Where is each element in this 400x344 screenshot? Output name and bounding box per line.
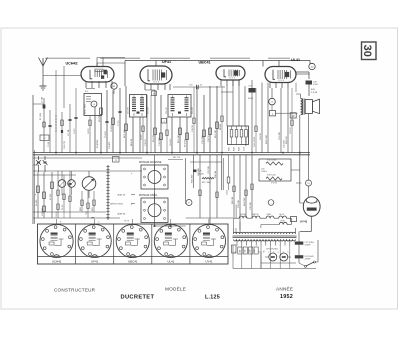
- svg-text:470MF: 470MF: [305, 245, 312, 247]
- svg-text:C9 25: C9 25: [141, 134, 143, 140]
- svg-text:MOTEUR OSCIL.: MOTEUR OSCIL.: [139, 194, 158, 197]
- svg-text:S25 16049: S25 16049: [305, 256, 314, 258]
- svg-text:245: 245: [254, 250, 256, 253]
- svg-text:1/2MG: 1/2MG: [261, 171, 267, 173]
- svg-text:T2 40: T2 40: [62, 204, 64, 210]
- svg-text:R18 47000: R18 47000: [267, 159, 278, 161]
- svg-text:78 79: 78 79: [124, 221, 130, 223]
- svg-text:DETECTION: DETECTION: [110, 203, 123, 205]
- svg-text:UY41: UY41: [300, 219, 308, 223]
- svg-text:R24 4700: R24 4700: [246, 138, 248, 146]
- svg-text:C2: C2: [43, 138, 45, 140]
- svg-text:130: 130: [245, 250, 247, 253]
- svg-text:2 W. M: 2 W. M: [271, 182, 277, 184]
- svg-text:1: 1: [278, 252, 280, 253]
- svg-text:1952: 1952: [280, 294, 293, 300]
- svg-text:15000: 15000: [198, 173, 204, 175]
- svg-text:R2 47 5KG: R2 47 5KG: [85, 103, 87, 114]
- svg-text:L3 240: L3 240: [50, 193, 52, 200]
- svg-text:C78: C78: [248, 86, 251, 88]
- svg-text:2: 2: [288, 252, 290, 253]
- svg-text:220: 220: [249, 250, 251, 253]
- svg-text:UBC41: UBC41: [128, 259, 138, 263]
- svg-text:CONSTRUCTEUR: CONSTRUCTEUR: [54, 288, 96, 293]
- svg-text:UY41: UY41: [205, 259, 213, 263]
- svg-text:UL41: UL41: [291, 58, 300, 62]
- svg-text:C5 100: C5 100: [105, 131, 107, 138]
- svg-text:C10 470: C10 470: [127, 107, 129, 114]
- svg-text:UF41: UF41: [91, 259, 98, 263]
- svg-text:150: 150: [311, 67, 314, 69]
- svg-text:R7 1500: R7 1500: [185, 138, 187, 147]
- svg-text:C24 47000: C24 47000: [254, 136, 256, 147]
- svg-text:R19 1200: R19 1200: [267, 174, 277, 176]
- svg-text:R15 25M: R15 25M: [191, 174, 193, 183]
- svg-text:C22 5N: C22 5N: [260, 133, 262, 140]
- svg-text:MODÈLE: MODÈLE: [165, 286, 186, 292]
- svg-text:3: 3: [273, 252, 275, 253]
- svg-text:C462: C462: [226, 189, 228, 195]
- svg-text:110: 110: [240, 250, 242, 253]
- svg-text:UBC41: UBC41: [199, 61, 211, 65]
- svg-text:G: G: [271, 102, 273, 104]
- svg-text:MOTEUR ANTENNE: MOTEUR ANTENNE: [139, 161, 162, 164]
- svg-text:C30 10N: C30 10N: [250, 201, 252, 210]
- svg-text:B.R.: B.R.: [311, 89, 316, 91]
- svg-text:C27 16384: C27 16384: [305, 242, 314, 244]
- svg-text:C4 5,7,81: C4 5,7,81: [64, 141, 66, 149]
- svg-text:C20 50: C20 50: [208, 135, 210, 142]
- svg-text:MIL. P.U.: MIL. P.U.: [173, 157, 181, 159]
- svg-text:C19 25M: C19 25M: [202, 135, 204, 144]
- svg-text:UF41: UF41: [162, 60, 171, 64]
- svg-text:C18: C18: [189, 85, 192, 87]
- svg-text:C7 50: C7 50: [118, 120, 120, 126]
- svg-text:C6 4N9: C6 4N9: [111, 124, 113, 132]
- svg-text:C17 NL: C17 NL: [68, 130, 70, 136]
- svg-text:30: 30: [361, 45, 373, 57]
- svg-text:ANNÉE: ANNÉE: [276, 286, 293, 292]
- svg-text:R13 0.2M: R13 0.2M: [266, 135, 268, 144]
- svg-text:DUCRETET: DUCRETET: [121, 295, 155, 301]
- svg-text:UL41: UL41: [167, 259, 174, 263]
- svg-text:C28: C28: [261, 168, 264, 170]
- svg-text:470MF: 470MF: [305, 258, 312, 260]
- svg-text:C1 240: C1 240: [42, 97, 44, 103]
- svg-text:C29 50N: C29 50N: [238, 199, 240, 208]
- svg-text:C31 15: C31 15: [56, 211, 58, 218]
- svg-text:R1 1MG: R1 1MG: [40, 112, 42, 120]
- svg-text:C8 50: C8 50: [88, 128, 90, 134]
- svg-text:R20 1M: R20 1M: [232, 197, 234, 204]
- svg-text:UCH42: UCH42: [52, 259, 62, 263]
- svg-text:R16 1M: R16 1M: [215, 171, 217, 178]
- svg-text:2,3,98: 2,3,98: [311, 92, 318, 94]
- svg-text:R8 2M: R8 2M: [220, 124, 222, 130]
- svg-text:UCH42: UCH42: [66, 62, 78, 66]
- svg-text:M: M: [113, 86, 115, 88]
- svg-text:C12 50: C12 50: [145, 139, 147, 146]
- svg-text:C23 10N: C23 10N: [279, 131, 281, 140]
- svg-text:R5 47M: R5 47M: [153, 135, 155, 142]
- svg-text:g: g: [35, 194, 36, 196]
- svg-text:C25 50N: C25 50N: [208, 165, 210, 174]
- svg-text:R9 0.5M: R9 0.5M: [215, 130, 217, 138]
- svg-text:C3 50: C3 50: [48, 142, 50, 147]
- svg-text:R3 25M: R3 25M: [99, 115, 101, 122]
- svg-text:C13 25M: C13 25M: [159, 137, 161, 146]
- svg-text:R8 47M: R8 47M: [131, 139, 133, 146]
- svg-text:5: 5: [283, 252, 285, 253]
- svg-text:C35 470: C35 470: [109, 142, 111, 149]
- svg-text:R3 47000: R3 47000: [97, 140, 99, 148]
- svg-text:R4 0.1M: R4 0.1M: [124, 130, 126, 138]
- svg-text:C14 470: C14 470: [166, 107, 168, 114]
- svg-text:50: 50: [200, 85, 202, 87]
- svg-text:R6 0.1M: R6 0.1M: [178, 135, 180, 143]
- svg-text:C14 125: C14 125: [170, 139, 172, 146]
- svg-text:C23 50: C23 50: [290, 127, 292, 134]
- svg-text:R14 150: R14 150: [286, 135, 288, 144]
- svg-text:4: 4: [163, 121, 164, 123]
- svg-text:C36 10N: C36 10N: [284, 140, 286, 148]
- svg-text:C15 470: C15 470: [192, 107, 194, 114]
- svg-text:L2 460: L2 460: [36, 199, 38, 206]
- svg-text:C16 5N: C16 5N: [192, 125, 194, 132]
- svg-text:85008: 85008: [248, 98, 253, 100]
- svg-text:0.5M: 0.5M: [313, 84, 318, 86]
- svg-text:L.125: L.125: [205, 295, 220, 301]
- svg-text:R17, 1MG: R17, 1MG: [202, 182, 211, 184]
- svg-text:6: 6: [269, 252, 271, 253]
- svg-text:C4 15: C4 15: [74, 128, 76, 134]
- svg-text:R21 25M: R21 25M: [244, 197, 246, 206]
- svg-text:C32 240: C32 240: [42, 207, 44, 216]
